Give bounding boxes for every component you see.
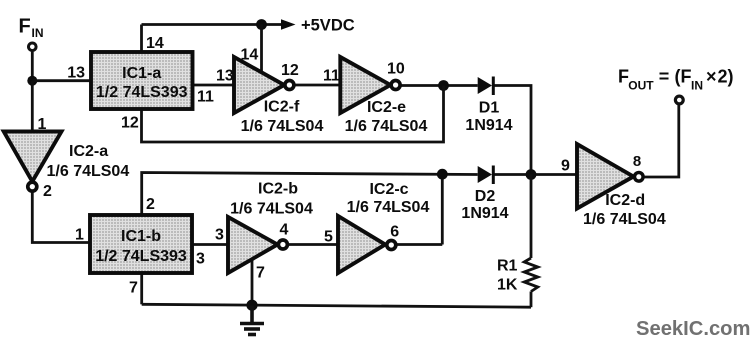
svg-text:IN: IN	[32, 26, 44, 40]
power +5VDC arrow	[281, 19, 296, 30]
svg-text:13: 13	[216, 68, 234, 85]
svg-text:8: 8	[633, 153, 641, 170]
svg-text:1N914: 1N914	[461, 205, 508, 222]
wire	[31, 52, 34, 81]
op-amp IC2-a inverter	[4, 116, 130, 200]
IC1-b 1/2 74LS393	[90, 215, 192, 273]
svg-text:13: 13	[67, 65, 85, 82]
wire IC2-c out riser	[441, 174, 444, 244]
wire	[288, 243, 338, 246]
node F_OUT terminal	[675, 96, 683, 104]
node +5V junction	[256, 19, 267, 30]
svg-text:1K: 1K	[497, 277, 518, 294]
svg-text:=: =	[659, 67, 670, 87]
op-amp IC2-c inverter	[324, 181, 429, 273]
svg-text:5: 5	[324, 229, 333, 246]
svg-text:OUT: OUT	[628, 79, 654, 93]
op-amp IC2-b inverter	[228, 181, 313, 282]
wire IC2-a out	[32, 192, 90, 243]
svg-text:1/2 74LS393: 1/2 74LS393	[95, 248, 187, 265]
svg-text:10: 10	[387, 61, 405, 78]
svg-text:6: 6	[390, 224, 399, 241]
svg-text:1/6 74LS04: 1/6 74LS04	[345, 118, 428, 135]
svg-text:D2: D2	[475, 188, 496, 205]
svg-text:2: 2	[146, 196, 155, 213]
node F_OUT label	[618, 67, 734, 93]
svg-text:IC2-f: IC2-f	[264, 99, 300, 116]
svg-text:12: 12	[121, 115, 139, 132]
svg-text:11: 11	[197, 89, 214, 106]
svg-text:IC2-a: IC2-a	[69, 143, 108, 160]
svg-text:3: 3	[196, 251, 205, 268]
IC1-a 1/2 74LS393	[91, 52, 193, 109]
wire R1 top	[530, 175, 533, 259]
svg-text:IC1-b: IC1-b	[121, 228, 161, 245]
ground	[240, 306, 264, 335]
wire D1 cathode	[494, 86, 531, 175]
svg-text:IC1-a: IC1-a	[122, 65, 161, 82]
op-amp IC2-f inverter	[234, 47, 323, 136]
node D1 input junction	[438, 80, 449, 91]
wire IC1-b out	[192, 243, 229, 246]
node input junction	[27, 76, 37, 86]
op-amp IC2-e inverter	[323, 57, 427, 135]
wire	[32, 79, 91, 82]
svg-text:12: 12	[281, 62, 299, 79]
node F_IN label	[19, 16, 44, 41]
svg-text:(F: (F	[675, 67, 692, 87]
svg-text:3: 3	[215, 227, 224, 244]
resistor R1	[524, 258, 538, 292]
svg-text:1/6 74LS04: 1/6 74LS04	[347, 199, 430, 216]
wire R1 bottom	[530, 292, 533, 308]
wire D2 cathode to IC2-d	[494, 173, 577, 176]
wire IC2-b pin7 ground drop	[251, 259, 254, 306]
svg-text:1: 1	[75, 227, 84, 244]
svg-text:IC2-c: IC2-c	[369, 181, 408, 198]
svg-text:7: 7	[129, 280, 138, 297]
svg-text:+5VDC: +5VDC	[301, 17, 355, 35]
svg-text:SeekIC.com: SeekIC.com	[636, 318, 750, 340]
node ground junction	[246, 300, 257, 311]
svg-text:2: 2	[43, 183, 52, 200]
wire IC1-b pin2 clear line	[142, 173, 478, 216]
svg-text:2): 2)	[718, 67, 734, 87]
svg-text:1/6 74LS04: 1/6 74LS04	[583, 211, 666, 228]
svg-text:11: 11	[323, 68, 340, 85]
wire IC1-b pin7	[140, 273, 143, 304]
node clear line junction	[437, 169, 448, 180]
svg-text:1/6 74LS04: 1/6 74LS04	[241, 118, 324, 135]
node summing junction	[526, 169, 537, 180]
svg-text:1/2 74LS393: 1/2 74LS393	[96, 84, 188, 101]
svg-text:IC2-b: IC2-b	[258, 181, 298, 198]
wire	[396, 243, 443, 246]
op-amp IC2-d inverter	[561, 144, 666, 228]
svg-text:IN: IN	[691, 79, 703, 93]
svg-text:1/6 74LS04: 1/6 74LS04	[47, 163, 130, 180]
wire ground rail	[142, 304, 531, 307]
svg-text:IC2-d: IC2-d	[605, 192, 645, 209]
svg-text:IC2-e: IC2-e	[367, 99, 406, 116]
wire IC1-a out	[193, 84, 235, 87]
wire	[400, 84, 477, 87]
svg-text:1/6 74LS04: 1/6 74LS04	[230, 201, 313, 218]
svg-text:14: 14	[241, 47, 259, 64]
wire	[31, 81, 34, 132]
wire	[140, 25, 143, 53]
svg-text:F: F	[19, 16, 31, 38]
svg-text:D1: D1	[479, 100, 500, 117]
svg-text:×: ×	[706, 67, 717, 87]
svg-text:4: 4	[280, 222, 289, 239]
svg-text:14: 14	[146, 35, 164, 52]
node F_IN terminal	[29, 43, 37, 51]
wire clear feedback top	[142, 86, 444, 143]
svg-text:7: 7	[256, 265, 265, 282]
wire	[294, 84, 340, 87]
svg-text:9: 9	[561, 158, 570, 175]
diode D2 1N914	[461, 166, 508, 223]
svg-text:1N914: 1N914	[465, 117, 512, 134]
wire IC2-d out	[644, 105, 679, 177]
diode D1 1N914	[465, 77, 512, 135]
svg-text:1: 1	[38, 116, 47, 133]
wire +5V rail	[142, 23, 284, 26]
wire IC2-f pin14	[260, 25, 263, 73]
svg-text:R1: R1	[497, 258, 518, 275]
